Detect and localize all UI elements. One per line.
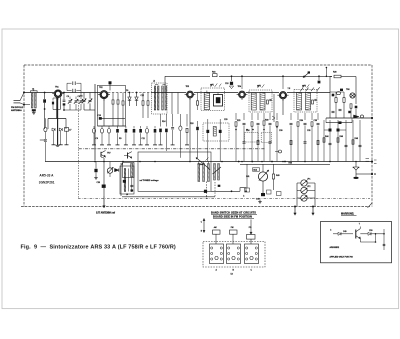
svg-text:BAND SWITCH SEEN AT CIRCUITS: BAND SWITCH SEEN AT CIRCUITS (211, 210, 256, 214)
svg-text:C30: C30 (279, 130, 282, 132)
svg-text:R18: R18 (190, 123, 193, 125)
svg-text:LP2: LP2 (307, 186, 310, 188)
svg-text:C9: C9 (96, 138, 98, 140)
svg-text:R25: R25 (237, 120, 240, 122)
svg-text:AR5-33 A: AR5-33 A (39, 174, 54, 178)
svg-text:C6: C6 (67, 96, 69, 98)
svg-text:C43: C43 (256, 199, 259, 201)
svg-text:R46: R46 (340, 136, 343, 138)
svg-text:7.8: 7.8 (288, 88, 291, 90)
svg-text:R34: R34 (300, 120, 303, 122)
svg-text:C36: C36 (97, 182, 100, 184)
svg-text:BOARD SIDE IN FM POSITION: BOARD SIDE IN FM POSITION (213, 215, 252, 219)
svg-text:TR7: TR7 (107, 153, 111, 155)
svg-text:R48: R48 (355, 138, 358, 140)
svg-text:TR2: TR2 (99, 87, 103, 89)
svg-text:C35: C35 (307, 130, 310, 132)
svg-text:C49: C49 (343, 231, 346, 233)
svg-text:R9: R9 (119, 138, 121, 140)
svg-text:C24: C24 (246, 130, 249, 132)
svg-text:R28: R28 (333, 72, 336, 74)
svg-text:C11: C11 (142, 138, 145, 140)
svg-text:ANTENNA: ANTENNA (11, 109, 22, 112)
svg-text:L6: L6 (121, 164, 123, 166)
svg-text:R44: R44 (325, 136, 328, 138)
svg-text:C41: C41 (246, 176, 249, 178)
svg-text:Fig. 9 — Sintonizzatore ARS: Fig. 9 — Sintonizzatore ARS 33 A (LF 758… (21, 245, 176, 251)
svg-text:C38: C38 (314, 120, 317, 122)
svg-text:3GN2P261: 3GN2P261 (39, 181, 55, 185)
svg-text:C10: C10 (98, 115, 101, 117)
svg-text:TR3: TR3 (186, 86, 190, 88)
svg-text:TR1: TR1 (55, 87, 59, 89)
svg-text:SJT ANTENNA mf: SJT ANTENNA mf (96, 212, 115, 215)
svg-text:APPLIED ONLY FOR 760: APPLIED ONLY FOR 760 (330, 255, 354, 258)
svg-text:C50: C50 (369, 230, 372, 232)
svg-text:C7: C7 (69, 130, 71, 132)
svg-text:D1: D1 (126, 90, 128, 92)
svg-text:C4: C4 (80, 96, 82, 98)
svg-text:L2: L2 (153, 81, 155, 83)
svg-text:C12: C12 (141, 95, 144, 97)
svg-text:R36: R36 (289, 162, 292, 164)
svg-text:TR4: TR4 (238, 86, 242, 88)
svg-text:R16: R16 (212, 71, 215, 73)
svg-text:L6: L6 (126, 194, 128, 196)
svg-text:MARRONE:: MARRONE: (341, 213, 354, 216)
svg-text:mf TUNED voltage: mf TUNED voltage (140, 179, 160, 182)
svg-text:C18: C18 (225, 83, 228, 85)
svg-text:R40: R40 (276, 175, 279, 177)
svg-text:LP1: LP1 (307, 179, 310, 181)
svg-text:ARS33/R2: ARS33/R2 (330, 246, 340, 249)
svg-text:R14: R14 (162, 121, 165, 123)
svg-text:FM DIPOLE: FM DIPOLE (11, 107, 23, 109)
svg-text:C20: C20 (224, 119, 227, 121)
svg-text:R30: R30 (265, 120, 268, 122)
svg-text:TR6: TR6 (346, 89, 350, 91)
